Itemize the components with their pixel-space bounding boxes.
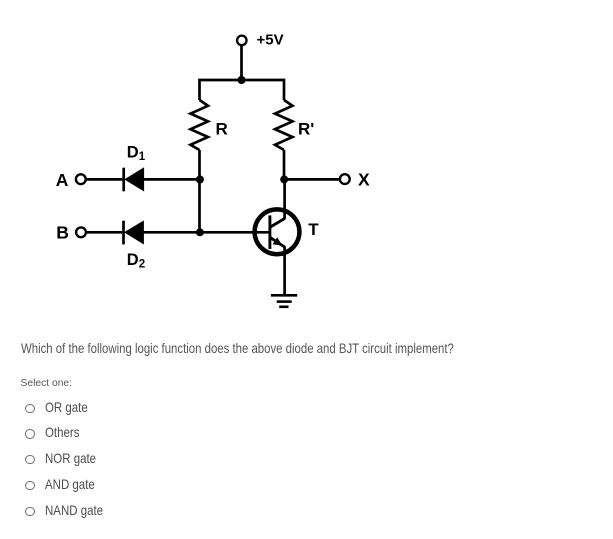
junction: node 2 (D2 / base)	[196, 228, 204, 236]
input terminal B	[76, 227, 86, 237]
option: Others	[25, 429, 34, 438]
wire: node X to X terminal	[284, 178, 340, 181]
wire: R' bottom to node X	[283, 150, 286, 179]
option: AND gate	[25, 481, 34, 490]
wire: top rail	[200, 80, 285, 100]
+5V supply terminal	[237, 36, 247, 46]
junction: node X	[280, 175, 288, 183]
transistor T	[255, 209, 300, 254]
svg-text:A: A	[56, 170, 69, 190]
svg-text:T: T	[308, 220, 319, 239]
output terminal X	[340, 174, 350, 184]
junction: node 1 (D1 / R / column)	[196, 176, 204, 184]
wire: R bottom through node A down to node B	[198, 150, 201, 232]
option: OR gate	[25, 404, 34, 413]
ground	[271, 295, 297, 307]
svg-text:B: B	[56, 223, 69, 243]
resistor R'	[275, 100, 293, 150]
wire: node 2 to transistor base	[200, 231, 270, 234]
svg-text:R': R'	[298, 120, 314, 139]
wire: diode D2 to node 2	[143, 231, 199, 234]
question text	[21, 340, 454, 356]
diode D2	[124, 221, 144, 245]
wire: A terminal to diode D1	[86, 178, 122, 181]
select one label	[21, 378, 73, 389]
svg-text:R: R	[216, 120, 228, 139]
svg-text:D1: D1	[127, 144, 146, 164]
svg-text:D2: D2	[127, 251, 145, 271]
svg-text:X: X	[358, 170, 370, 190]
svg-text:+5V: +5V	[257, 32, 284, 49]
wire: B terminal to diode D2	[86, 231, 122, 234]
diode D1	[124, 168, 144, 192]
wire: +5V terminal to top rail	[240, 46, 243, 80]
wire: emitter to ground	[283, 246, 286, 295]
resistor R	[191, 100, 209, 150]
junction: top rail node	[237, 76, 245, 84]
input terminal A	[76, 174, 86, 184]
option: NOR gate	[25, 455, 34, 464]
option: NAND gate	[25, 507, 34, 516]
wire: diode D1 to node 1	[144, 178, 200, 181]
wire: collector to node X	[283, 179, 286, 218]
